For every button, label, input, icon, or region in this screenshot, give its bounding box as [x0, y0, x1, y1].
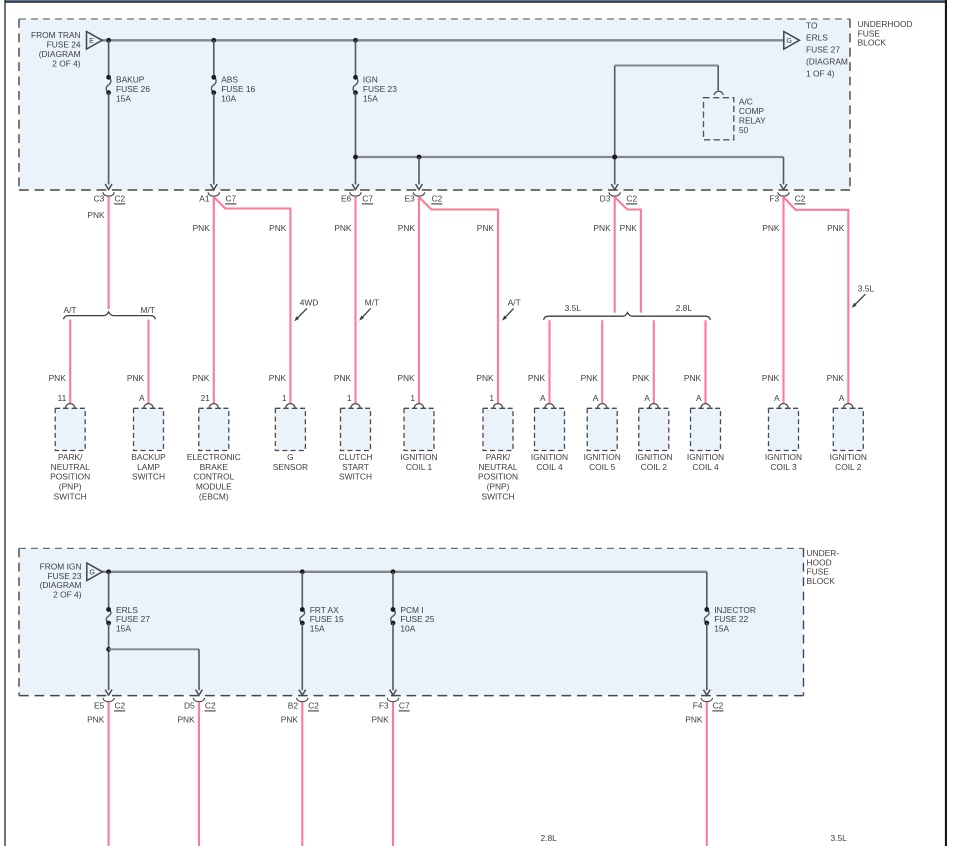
svg-text:PNK: PNK [269, 373, 287, 383]
svg-text:POSITION: POSITION [50, 472, 90, 482]
svg-text:A: A [139, 393, 145, 403]
svg-text:C7: C7 [362, 194, 373, 204]
svg-text:PNK: PNK [269, 223, 287, 233]
svg-text:1 OF 4): 1 OF 4) [806, 69, 835, 79]
svg-text:1: 1 [489, 393, 494, 403]
svg-text:10A: 10A [221, 94, 236, 104]
svg-text:MODULE: MODULE [196, 482, 232, 492]
svg-text:A: A [774, 393, 780, 403]
svg-text:IGNITION: IGNITION [531, 452, 568, 462]
svg-text:PNK: PNK [593, 223, 611, 233]
svg-text:A: A [696, 393, 702, 403]
svg-text:1: 1 [410, 393, 415, 403]
svg-text:PNK: PNK [193, 223, 211, 233]
svg-text:C2: C2 [308, 701, 319, 711]
svg-text:PNK: PNK [281, 714, 299, 724]
svg-text:SWITCH: SWITCH [54, 492, 87, 502]
svg-text:F3: F3 [769, 194, 779, 204]
svg-text:E3: E3 [404, 194, 415, 204]
svg-text:PNK: PNK [477, 223, 495, 233]
svg-text:A: A [644, 393, 650, 403]
svg-text:D3: D3 [600, 194, 611, 204]
svg-text:A/C: A/C [739, 96, 753, 106]
svg-text:SWITCH: SWITCH [132, 472, 165, 482]
svg-text:15A: 15A [714, 624, 729, 634]
svg-text:10A: 10A [400, 624, 415, 634]
svg-text:COIL 1: COIL 1 [406, 462, 433, 472]
svg-text:COIL 3: COIL 3 [770, 462, 797, 472]
svg-text:M/T: M/T [365, 298, 379, 308]
svg-text:15A: 15A [310, 624, 325, 634]
svg-text:PNK: PNK [87, 714, 105, 724]
svg-text:PNK: PNK [397, 373, 415, 383]
svg-text:PNK: PNK [476, 373, 494, 383]
svg-text:E: E [89, 36, 94, 45]
svg-text:1: 1 [347, 393, 352, 403]
svg-text:C7: C7 [226, 194, 237, 204]
svg-text:BACKUP: BACKUP [131, 452, 166, 462]
svg-text:1: 1 [282, 393, 287, 403]
svg-text:PNK: PNK [371, 714, 389, 724]
svg-text:IGNITION: IGNITION [400, 452, 437, 462]
svg-text:2.8L: 2.8L [541, 833, 558, 843]
svg-text:(EBCM): (EBCM) [199, 492, 229, 502]
svg-text:4WD: 4WD [300, 298, 319, 308]
svg-text:START: START [342, 462, 369, 472]
svg-text:PNK: PNK [177, 714, 195, 724]
svg-text:PNK: PNK [127, 373, 145, 383]
svg-text:FUSE 27: FUSE 27 [806, 45, 840, 55]
svg-text:F3: F3 [379, 701, 389, 711]
svg-text:C2: C2 [713, 701, 724, 711]
svg-text:SENSOR: SENSOR [273, 462, 308, 472]
svg-text:C2: C2 [795, 194, 806, 204]
svg-text:15A: 15A [116, 94, 131, 104]
svg-text:C7: C7 [399, 701, 410, 711]
svg-text:CLUTCH: CLUTCH [339, 452, 373, 462]
svg-text:A/T: A/T [508, 298, 521, 308]
svg-text:F4: F4 [693, 701, 703, 711]
svg-text:15A: 15A [116, 624, 131, 634]
svg-text:C2: C2 [432, 194, 443, 204]
svg-text:PNK: PNK [334, 373, 352, 383]
svg-text:M/T: M/T [140, 305, 154, 315]
svg-text:PNK: PNK [827, 223, 845, 233]
svg-text:IGNITION: IGNITION [635, 452, 672, 462]
svg-text:E5: E5 [94, 701, 105, 711]
svg-text:BLOCK: BLOCK [807, 576, 836, 586]
svg-text:PNK: PNK [192, 373, 210, 383]
svg-text:A: A [540, 393, 546, 403]
svg-text:15A: 15A [363, 94, 378, 104]
svg-text:PNK: PNK [49, 373, 67, 383]
svg-text:BRAKE: BRAKE [200, 462, 229, 472]
svg-text:ERLS: ERLS [806, 33, 828, 43]
svg-text:G: G [786, 36, 792, 45]
svg-text:TO: TO [806, 21, 818, 31]
svg-text:D5: D5 [184, 701, 195, 711]
svg-text:PNK: PNK [685, 714, 703, 724]
svg-text:11: 11 [58, 393, 67, 403]
svg-text:C2: C2 [205, 701, 216, 711]
svg-text:IGNITION: IGNITION [765, 452, 802, 462]
svg-text:50: 50 [739, 125, 749, 135]
svg-text:PARK/: PARK/ [58, 452, 83, 462]
svg-text:RELAY: RELAY [739, 115, 766, 125]
svg-text:NEUTRAL: NEUTRAL [51, 462, 90, 472]
svg-text:B2: B2 [288, 701, 299, 711]
svg-text:3.5L: 3.5L [831, 833, 848, 843]
svg-text:PNK: PNK [684, 373, 702, 383]
svg-text:COIL 4: COIL 4 [536, 462, 563, 472]
svg-text:COIL 2: COIL 2 [835, 462, 862, 472]
svg-text:SWITCH: SWITCH [339, 472, 372, 482]
svg-text:E6: E6 [341, 194, 352, 204]
svg-text:PNK: PNK [632, 373, 650, 383]
svg-text:LAMP: LAMP [137, 462, 160, 472]
svg-text:A1: A1 [199, 194, 210, 204]
svg-text:(PNP): (PNP) [59, 482, 82, 492]
svg-text:3.5L: 3.5L [858, 283, 875, 293]
svg-text:CONTROL: CONTROL [193, 472, 234, 482]
svg-text:2 OF 4): 2 OF 4) [52, 58, 81, 68]
svg-text:PNK: PNK [620, 223, 638, 233]
svg-text:(PNP): (PNP) [487, 482, 510, 492]
svg-text:COIL 4: COIL 4 [692, 462, 719, 472]
svg-text:A: A [839, 393, 845, 403]
svg-text:IGNITION: IGNITION [687, 452, 724, 462]
svg-text:3.5L: 3.5L [565, 303, 582, 313]
svg-text:PNK: PNK [334, 223, 352, 233]
svg-text:21: 21 [201, 393, 211, 403]
svg-text:PNK: PNK [528, 373, 546, 383]
svg-text:2.8L: 2.8L [676, 303, 693, 313]
svg-text:G: G [287, 452, 294, 462]
svg-text:PNK: PNK [87, 210, 105, 220]
svg-text:PNK: PNK [762, 223, 780, 233]
svg-text:A/T: A/T [63, 305, 76, 315]
svg-text:(DIAGRAM: (DIAGRAM [806, 57, 848, 67]
svg-text:SWITCH: SWITCH [481, 492, 514, 502]
svg-text:IGNITION: IGNITION [830, 452, 867, 462]
svg-text:POSITION: POSITION [478, 472, 518, 482]
svg-text:BLOCK: BLOCK [858, 38, 887, 48]
svg-text:PNK: PNK [762, 373, 780, 383]
svg-text:COIL 5: COIL 5 [589, 462, 616, 472]
svg-text:NEUTRAL: NEUTRAL [478, 462, 517, 472]
svg-text:PNK: PNK [398, 223, 416, 233]
svg-text:PNK: PNK [827, 373, 845, 383]
svg-text:COIL 2: COIL 2 [641, 462, 668, 472]
svg-text:C3: C3 [94, 194, 105, 204]
svg-text:ELECTRONIC: ELECTRONIC [187, 452, 241, 462]
svg-text:2 OF 4): 2 OF 4) [53, 590, 82, 600]
svg-text:A: A [593, 393, 599, 403]
svg-text:PNK: PNK [581, 373, 599, 383]
svg-text:C2: C2 [115, 194, 126, 204]
svg-text:IGNITION: IGNITION [584, 452, 621, 462]
svg-text:C2: C2 [115, 701, 126, 711]
svg-text:G: G [89, 568, 95, 577]
svg-text:PARK/: PARK/ [486, 452, 511, 462]
svg-text:C2: C2 [626, 194, 637, 204]
